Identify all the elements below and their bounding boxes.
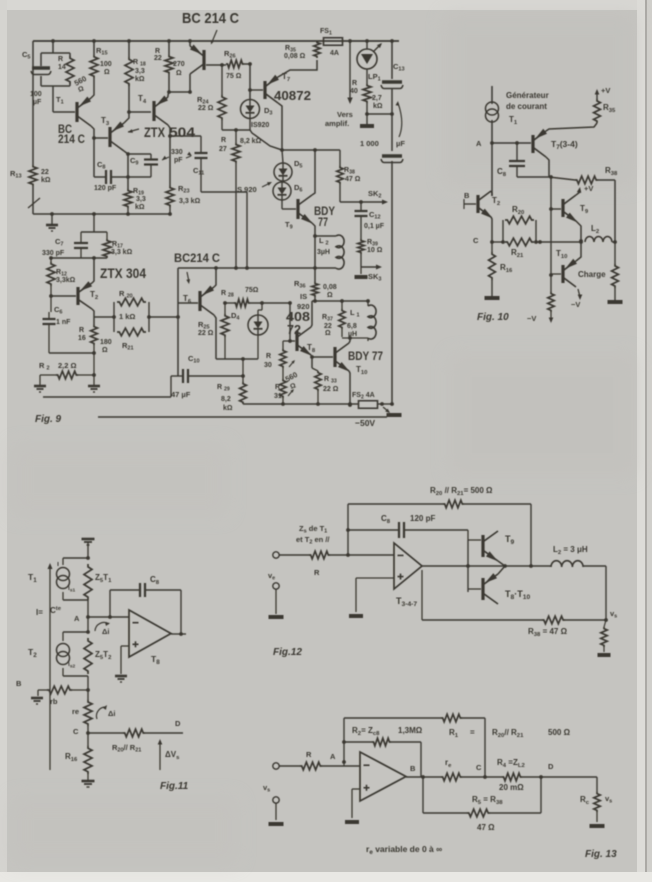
wire R25 stubs [224, 303, 226, 359]
inductor L2 (fig10) [585, 237, 612, 243]
wire T2 collector up [92, 258, 94, 283]
svg-text:22 Ω: 22 Ω [323, 386, 339, 393]
label T2 (fig10) [492, 196, 501, 207]
resistor R21 (fig9) [117, 328, 146, 336]
wire R26 right node [244, 62, 252, 99]
label R (fig12) [314, 568, 320, 577]
label ZST2 [95, 650, 112, 661]
arrow I direction [48, 563, 53, 770]
wire T8T10 base [468, 588, 481, 590]
resistor R24 [218, 95, 226, 120]
svg-text:Ω: Ω [104, 69, 110, 76]
wire T6 emitter down [214, 315, 216, 359]
label C10 [188, 354, 200, 365]
transistor T2 pnp [78, 281, 92, 309]
wire D5-D6 chain [282, 150, 296, 209]
wire C7 box bottom [49, 248, 107, 260]
wire T9 base [551, 208, 561, 210]
label C9 [130, 156, 138, 167]
ground at opamp plus (fig11) [115, 676, 127, 682]
wire T10 collector up to output node [576, 242, 581, 261]
label Generateur de courant T1 [506, 91, 549, 126]
label D4 [231, 311, 240, 322]
label L1 [347, 308, 360, 338]
diode D5 [274, 163, 292, 181]
label 22 kohm [41, 169, 51, 184]
label R26 [224, 49, 236, 60]
wire T9 collector up [312, 150, 315, 195]
parallel R20/R21 box (fig9) [114, 302, 149, 332]
wire generator to node A [490, 120, 494, 196]
resistor re [84, 700, 92, 726]
capacitor C8 (fig12) [399, 522, 404, 538]
wire feedback row2 (fig13) [344, 742, 421, 777]
opamp T8 (fig11) [129, 610, 171, 657]
inductor L2 loop [315, 235, 344, 269]
svg-text:µF: µF [396, 139, 405, 148]
current source Ic2 [57, 644, 70, 665]
label Ic2 [68, 661, 75, 669]
wire C6 stubs [49, 296, 51, 353]
label R33 [323, 376, 339, 393]
label BDY 77 (T10) [348, 349, 383, 363]
wire T6 collector up [214, 268, 216, 287]
wire row bottom L1/R37 [342, 336, 368, 340]
resistor R25 [221, 314, 229, 337]
label D (fig13) [548, 762, 554, 771]
wire R22 bottom to T4 emitter [167, 74, 171, 97]
wire T6 base [178, 302, 198, 304]
wire D4 stubs [258, 303, 262, 359]
wire T8 emitter to T10 base [310, 355, 333, 359]
capacitor C8 [106, 170, 111, 184]
wire L2 to vs node [583, 566, 608, 622]
svg-text:3,3 kΩ: 3,3 kΩ [111, 249, 133, 256]
svg-text:214 C: 214 C [58, 132, 85, 146]
terminal ve top [273, 552, 279, 558]
svg-text:330 pF: 330 pF [42, 250, 65, 257]
wire opamp minus entry [359, 765, 361, 767]
svg-text:I=: I= [36, 608, 43, 617]
svg-text:+V: +V [584, 184, 593, 193]
svg-text:R: R [352, 80, 357, 87]
svg-text:16: 16 [78, 335, 86, 342]
wire T10 emitter down [348, 371, 352, 407]
label BDY 77 (T9) [314, 204, 335, 229]
ground under R40 [360, 114, 374, 126]
loop1 top [63, 556, 90, 565]
wire re to C [86, 726, 90, 746]
svg-text:2,7: 2,7 [372, 95, 382, 102]
light left edge strip [0, 0, 7, 882]
label IS920 (D3) [251, 122, 269, 129]
bottom white strip [0, 872, 652, 882]
label R5 = R38 [472, 795, 503, 806]
wire T5 emitter to top rail [189, 41, 191, 46]
wire T9 collector +V [576, 184, 593, 195]
label IS 920 (D4) [297, 292, 310, 311]
label R29 [217, 384, 233, 412]
wire charge to ground [614, 242, 616, 300]
diode D4 (IS920) [248, 315, 268, 335]
wire R5 loop [423, 777, 541, 813]
resistor lower -V [548, 292, 554, 312]
label T10 (fig10) [556, 249, 568, 260]
svg-text:3,3: 3,3 [136, 196, 146, 203]
label R37 [322, 314, 333, 337]
svg-text:120 pF: 120 pF [410, 514, 435, 523]
wire driver node to R38 (fig10) [549, 175, 575, 180]
wire opamp plus to ground (fig12) [356, 578, 394, 612]
label ZTX 304 [100, 265, 146, 281]
label 20 mohm [499, 783, 524, 792]
label D (fig11) [175, 719, 181, 728]
resistor R20 (fig10) [505, 216, 534, 224]
wire left vertical A [342, 718, 346, 764]
transistor T3 pnp [110, 122, 124, 152]
label 0,08 ohm [323, 284, 337, 299]
wire bias diag to D5 [250, 130, 282, 150]
svg-text:kΩ: kΩ [223, 405, 233, 412]
wire T2 base [464, 199, 476, 209]
label R1 = [449, 728, 475, 739]
label R28 [221, 290, 234, 299]
ground at B [31, 698, 43, 704]
wire top stem [87, 542, 89, 558]
inductor L1 loop [368, 301, 376, 341]
svg-text:R: R [155, 48, 160, 55]
svg-text:Fig. 13: Fig. 13 [585, 849, 617, 860]
svg-text:kΩ: kΩ [135, 204, 145, 211]
svg-text:75Ω: 75Ω [245, 287, 259, 294]
wire down to R29 [241, 359, 245, 378]
label C5 [22, 50, 30, 61]
wire T2 collector [491, 191, 492, 196]
label R20//R21 (fig11) [112, 743, 141, 754]
resistor R26 [226, 60, 244, 68]
ground under R2 left [34, 386, 46, 392]
svg-text:rb: rb [50, 697, 58, 706]
wire C11 top [170, 136, 201, 153]
wire rail to A [86, 600, 90, 632]
resistor R5 [467, 809, 490, 817]
wire C9 stubs [128, 154, 151, 177]
svg-text:Δi: Δi [102, 627, 109, 636]
resistor R13 [29, 165, 37, 186]
wire R18 bottom to T4 base [127, 84, 151, 114]
wire rail to rb node [86, 676, 90, 700]
wire R27 bottom long drop to T6 section [235, 163, 237, 268]
resistor R40 [363, 84, 371, 103]
wire R12 stubs [49, 258, 53, 298]
label 180 ohm [100, 339, 112, 354]
wire Rc to ground [596, 812, 598, 822]
resistor rb [47, 686, 72, 694]
svg-text:3,3kΩ: 3,3kΩ [56, 277, 76, 284]
label C7 [55, 237, 63, 248]
arrow BC214C to T6 [186, 272, 190, 284]
wire R4 to D [522, 775, 543, 779]
svg-text:R: R [221, 137, 226, 144]
svg-text:1 kΩ: 1 kΩ [119, 312, 135, 321]
label C6 [54, 305, 62, 316]
label Ic1 [68, 585, 75, 593]
resistor R2 [372, 738, 391, 746]
wire plus input to ground [121, 646, 129, 674]
resistor R35 (fig10) [594, 99, 601, 123]
wire T7 base [250, 89, 263, 91]
wire vs resistor [604, 620, 606, 652]
label R16 (fig9) [78, 327, 86, 342]
svg-text:2,2 Ω: 2,2 Ω [58, 361, 77, 370]
label 4A [330, 50, 339, 57]
label B (fig10) [464, 191, 470, 200]
resistor R16 (fig10) [489, 252, 496, 280]
svg-text:Δi: Δi [108, 709, 115, 718]
ground bottom (fig11) [82, 781, 95, 787]
wire LP1 top [366, 41, 368, 49]
loop2 top [63, 630, 90, 641]
label R20 (fig9) [119, 289, 133, 300]
wire T9 emitter to output [576, 221, 583, 243]
label -50V [355, 418, 375, 428]
wire right vertical C [484, 718, 486, 777]
svg-text:R: R [314, 568, 320, 577]
label Vers amplif. [325, 110, 353, 128]
svg-text:Ω: Ω [325, 330, 331, 337]
label vs right (fig13) [605, 794, 612, 805]
opamp fig13 [360, 752, 406, 801]
label BC 214C (T1) [58, 122, 85, 146]
terminal vs left bottom [273, 797, 279, 803]
wire -50V ground rail [98, 416, 387, 418]
ground under vs (fig13) [269, 822, 284, 826]
arrow slashes near R30/R31 [288, 360, 295, 396]
wire L2 to right rail [612, 240, 617, 244]
label 560 ohm rotated [73, 74, 88, 94]
resistor R38 [337, 166, 343, 184]
label 0,1 uF [364, 223, 385, 230]
label T8 (fig11) [151, 654, 160, 666]
label Zs de T1 et T2 [296, 524, 330, 546]
label A [476, 139, 482, 148]
svg-text:6,8: 6,8 [347, 323, 357, 330]
resistor Charge [612, 264, 619, 288]
label D5 [294, 159, 302, 170]
wire T2 base [51, 295, 76, 297]
wire feedback vertical [346, 504, 350, 557]
label R27 [219, 137, 227, 153]
label 120 pF [94, 185, 117, 192]
label R21 (fig10) [511, 248, 524, 259]
label R35 (fig10) [603, 103, 616, 114]
resistor R2 [56, 371, 78, 379]
svg-text:10 Ω: 10 Ω [367, 247, 383, 254]
arrow Vers amplif [347, 41, 352, 104]
arrow delta-Vs [158, 739, 163, 770]
label Fig.9 [35, 414, 62, 425]
label R38 [344, 167, 361, 183]
wire top +50V rail of Fig.9 [33, 40, 399, 42]
svg-text:de courant: de courant [506, 102, 547, 111]
svg-text:BDY 77: BDY 77 [348, 349, 383, 363]
label 40872 [274, 88, 311, 103]
capacitor C11 [195, 153, 208, 158]
label T6 [183, 294, 192, 305]
wire T1 emitter down to T3 base [91, 126, 108, 140]
resistor re (fig13) [441, 773, 462, 781]
capacitor C5 electrolytic [31, 68, 51, 75]
svg-text:1,3MΩ: 1,3MΩ [398, 726, 423, 735]
svg-text:B: B [16, 679, 22, 688]
capacitor C7 [74, 243, 88, 248]
svg-text:BC214 C: BC214 C [174, 251, 220, 265]
label vs left [263, 783, 270, 794]
label R20//R21=500 (fig12) [430, 486, 493, 497]
label C (fig13) [476, 763, 482, 772]
label R30 [264, 353, 272, 369]
label R19 [133, 188, 146, 211]
label 1 kohm [119, 312, 135, 321]
wire T8 base from R28 row [290, 303, 295, 341]
resistor R17 [103, 239, 111, 258]
svg-text:3µH: 3µH [317, 249, 330, 256]
svg-text:R: R [306, 750, 312, 759]
label R17 [111, 241, 133, 256]
opamp T3-4-7 [394, 543, 422, 589]
svg-text:Charge: Charge [578, 270, 606, 279]
wire T6 box bottom [216, 357, 258, 361]
wire T9 emitter down [312, 223, 317, 282]
label 2,7 kohm [372, 95, 383, 110]
label delta-i upper [102, 627, 109, 636]
svg-text:500 Ω: 500 Ω [548, 728, 571, 737]
svg-text:20 mΩ: 20 mΩ [499, 783, 524, 792]
wire right rail mid [391, 114, 393, 405]
resistor R input (fig13) [300, 762, 322, 770]
label R24 [197, 95, 214, 112]
wire C13 to node [391, 88, 393, 114]
wire T9 emitter join [498, 561, 505, 566]
label Fig.11 [160, 781, 189, 792]
transistor T9 npn (fig10) [563, 195, 578, 223]
arrow +V (R35) [595, 86, 611, 99]
svg-text:C: C [473, 236, 479, 245]
wire C7 box verticals [81, 214, 107, 242]
label vs (fig12) [610, 609, 617, 620]
resistor R20 (fig9) [117, 298, 146, 306]
svg-text:Fig. 9: Fig. 9 [35, 414, 62, 425]
wire T8 emitter down [311, 355, 312, 368]
wire into R20/R21 box [94, 315, 178, 319]
label 1 000 uF [360, 139, 405, 148]
ground under SK3 row [355, 267, 368, 277]
wire C to R4 [485, 776, 502, 778]
label T9 (fig12) [505, 534, 515, 546]
svg-text:−V: −V [527, 314, 536, 323]
svg-text:8,2: 8,2 [221, 396, 231, 403]
label FS1 [320, 28, 332, 37]
wire vs bottom to ground (fig13) [275, 803, 277, 820]
label T3 [101, 116, 110, 127]
capacitor C10 [183, 369, 188, 383]
capacitor 1000uF electrolytic [381, 156, 403, 163]
resistor R28 [234, 299, 250, 307]
svg-text:0,08: 0,08 [323, 284, 337, 291]
label R20//R21 500 (fig13) [492, 728, 571, 739]
svg-text:Fig.12: Fig.12 [273, 647, 302, 658]
label T7(3-4) [551, 139, 578, 151]
resistor ZST1 [84, 564, 92, 600]
label SK2 [368, 189, 381, 200]
wire feedback row1 [348, 503, 531, 505]
svg-text:22 Ω: 22 Ω [198, 330, 214, 337]
wire R27 top [235, 130, 237, 143]
wire R37 stubs [341, 301, 343, 337]
wire T3 emitter to T4 base node [124, 112, 129, 123]
label 100 uF [30, 91, 42, 106]
svg-text:0,1 µF: 0,1 µF [364, 223, 385, 230]
svg-text:0,08 Ω: 0,08 Ω [284, 53, 306, 60]
transistor T8 npn [297, 327, 312, 356]
svg-text:72: 72 [287, 322, 301, 337]
wire box to output row [536, 240, 583, 244]
transistor T2 npn (fig10) [478, 191, 493, 219]
wire R33 stubs [312, 368, 318, 405]
label 100 ohm [100, 61, 112, 76]
resistor R27 [232, 143, 240, 163]
capacitor C8 (fig11) [140, 583, 145, 597]
wire base link vertical [467, 540, 469, 592]
wire R23 bottom [169, 207, 171, 214]
label BC214C (T6) [174, 251, 220, 265]
label ZTX 504 with arrow [128, 124, 195, 140]
inductor L2 (fig12) [551, 561, 583, 567]
wire C8 left to T1/T3 node [94, 138, 106, 177]
current source Ic1 [57, 562, 70, 589]
svg-text:47 Ω: 47 Ω [477, 823, 495, 832]
label T9 [285, 220, 293, 231]
svg-text:77: 77 [318, 215, 328, 229]
wire T5 base to R26 [206, 63, 226, 67]
label R23 [178, 184, 201, 205]
svg-text:30: 30 [264, 362, 272, 369]
svg-text:IS920: IS920 [251, 122, 269, 129]
svg-text:pF: pF [174, 157, 183, 164]
svg-text:ZTX: ZTX [144, 124, 166, 140]
label T3-4-7 [396, 596, 417, 608]
light top edge strip [0, 0, 652, 10]
wire T8 collector up [311, 301, 312, 327]
current generator symbol T1 [486, 102, 499, 122]
svg-text:14: 14 [58, 64, 66, 71]
terminal vs left top [273, 763, 279, 769]
capacitor C13 electrolytic [381, 82, 403, 89]
label R input (fig13) [306, 750, 312, 759]
resistor R33 [315, 371, 321, 391]
label re [72, 707, 79, 716]
wire D3 bottom / R24 bottom joining [222, 119, 250, 132]
terminal SK2 arrow [382, 200, 388, 205]
svg-text:R: R [266, 353, 271, 360]
label Fig.10 [477, 312, 509, 323]
ground at opamp plus (fig12) [349, 614, 363, 618]
ground -50V chassis bar [387, 413, 402, 417]
wire T7 emitter to R35 [546, 123, 597, 131]
label re (fig13) [445, 758, 452, 769]
label T8 [307, 343, 316, 354]
wire R30/R31 connect [283, 339, 292, 405]
